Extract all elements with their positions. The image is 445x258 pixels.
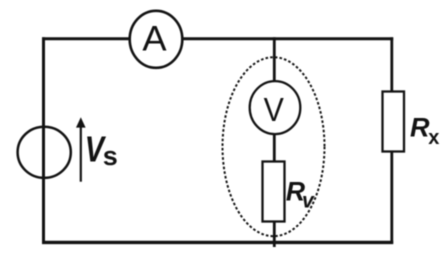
- wire: right vertical upper (top wire to Rx): [390, 37, 393, 92]
- svg-text:V: V: [264, 91, 284, 128]
- wire: bottom horizontal: [42, 241, 393, 244]
- wire: middle vertical mid (voltmeter to Rv): [273, 134, 276, 162]
- wire: top-left horizontal (source to ammeter): [42, 37, 130, 40]
- wire: left vertical (through source): [42, 37, 45, 244]
- voltmeter V circle: [250, 81, 301, 134]
- wire: middle vertical lower (Rv to bottom wire): [273, 221, 276, 247]
- resistor Rv body: [263, 162, 285, 222]
- current/voltage arrow next to source: [80, 124, 82, 182]
- ammeter A1 circle: [130, 11, 183, 68]
- wire: middle vertical upper (top wire to voltmeter): [273, 37, 276, 81]
- resistor Rx body: [383, 92, 405, 152]
- dotted ellipse enclosing voltmeter and Rv: [223, 57, 325, 236]
- svg-text:v: v: [302, 189, 315, 212]
- svg-text:A: A: [142, 20, 167, 59]
- wire: top-right horizontal (ammeter to right branch): [183, 37, 394, 40]
- svg-text:R: R: [410, 112, 430, 142]
- svg-text:s: s: [103, 141, 118, 171]
- wire: right vertical lower (Rx to bottom wire): [390, 151, 393, 244]
- svg-text:x: x: [428, 127, 439, 149]
- voltage source Vs circle: [18, 127, 71, 178]
